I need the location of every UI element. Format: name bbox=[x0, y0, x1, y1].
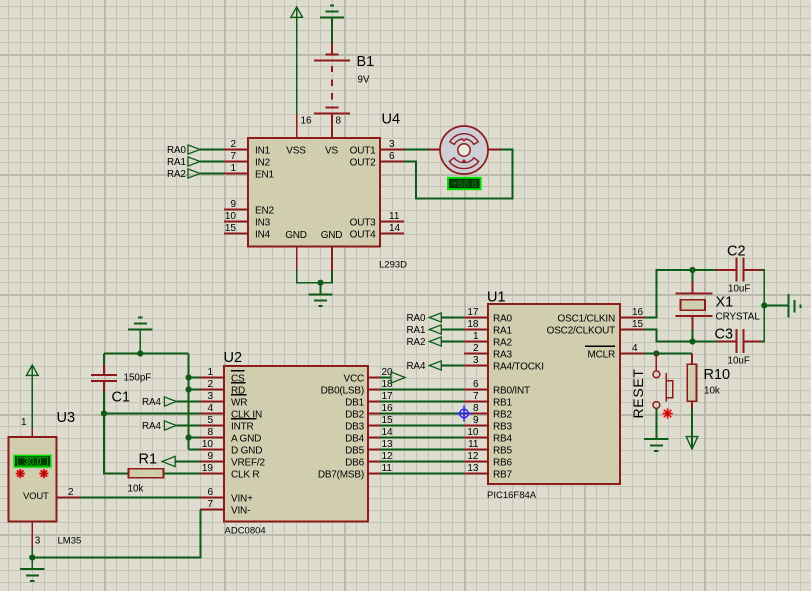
svg-text:15: 15 bbox=[225, 223, 237, 234]
svg-text:150pF: 150pF bbox=[124, 373, 152, 384]
svg-text:17: 17 bbox=[467, 307, 479, 318]
pin 4 stub U2 CLK IN bbox=[200, 413, 224, 415]
svg-text:VOUT: VOUT bbox=[23, 491, 49, 502]
pin 5 stub U2 INTR bbox=[200, 425, 224, 427]
pin 8 stub U1 RB2 bbox=[464, 413, 488, 415]
svg-text:DB1: DB1 bbox=[345, 398, 364, 409]
svg-text:DB2: DB2 bbox=[345, 410, 364, 421]
svg-text:9: 9 bbox=[473, 415, 479, 426]
junction C1/CLK IN bbox=[101, 410, 107, 416]
wire down to C1 bbox=[103, 354, 105, 365]
power terminal above U3 bbox=[27, 365, 39, 375]
pin 4 stub U1 MCLR bbox=[620, 353, 644, 355]
motor (DC motor symbol) bbox=[440, 126, 488, 174]
pin 10 stub U1 RB4 bbox=[464, 437, 488, 439]
wire top node to C2 bbox=[693, 269, 717, 271]
svg-text:2: 2 bbox=[473, 343, 479, 354]
svg-text:10k: 10k bbox=[704, 386, 720, 397]
svg-text:IN4: IN4 bbox=[255, 230, 271, 241]
svg-text:10: 10 bbox=[202, 439, 214, 450]
svg-text:12: 12 bbox=[467, 451, 479, 462]
svg-text:6: 6 bbox=[389, 151, 395, 162]
pin 16 stub U2 DB2 bbox=[368, 413, 380, 415]
blue origin marker on RB2 wire bbox=[456, 406, 472, 422]
svg-text:LM35: LM35 bbox=[58, 536, 82, 547]
svg-text:RB4: RB4 bbox=[493, 434, 512, 445]
svg-text:3: 3 bbox=[389, 139, 395, 150]
svg-text:16: 16 bbox=[632, 307, 644, 318]
pin 10 stub U4 IN3 bbox=[224, 221, 248, 223]
svg-text:OSC2/CLKOUT: OSC2/CLKOUT bbox=[547, 326, 615, 337]
svg-text:2: 2 bbox=[68, 487, 74, 498]
svg-text:RB7: RB7 bbox=[493, 470, 512, 481]
svg-text:1: 1 bbox=[21, 417, 27, 428]
svg-text:IN1: IN1 bbox=[255, 146, 271, 157]
capacitor C1 bbox=[91, 364, 117, 392]
svg-text:R1: R1 bbox=[139, 452, 158, 468]
pin 12 stub U2 DB6 bbox=[368, 461, 380, 463]
svg-text:DB5: DB5 bbox=[345, 446, 364, 457]
svg-text:RA1: RA1 bbox=[406, 325, 425, 336]
U4 GND pin stub left bbox=[296, 247, 298, 271]
junction CS bbox=[186, 374, 192, 380]
svg-text:12: 12 bbox=[382, 451, 394, 462]
svg-text:OUT2: OUT2 bbox=[350, 158, 377, 169]
terminal RA1 arrow bbox=[188, 157, 200, 166]
wire data bus row y=413.5 bbox=[380, 413, 464, 415]
pin 10 stub U2 D GND bbox=[200, 449, 224, 451]
svg-text:WR: WR bbox=[231, 398, 247, 409]
svg-text:RA4: RA4 bbox=[406, 361, 426, 372]
svg-text:C2: C2 bbox=[727, 244, 746, 260]
wire data bus row y=401.5 bbox=[380, 401, 464, 403]
svg-text:7: 7 bbox=[230, 151, 236, 162]
svg-text:RA3: RA3 bbox=[493, 350, 512, 361]
wire to ground bbox=[320, 283, 322, 295]
motor speed display +88.8 bbox=[448, 178, 481, 190]
svg-text:RESET: RESET bbox=[630, 368, 646, 418]
svg-text:EN2: EN2 bbox=[255, 206, 274, 217]
svg-text:7: 7 bbox=[207, 499, 213, 510]
junction MCLR/reset bbox=[653, 350, 659, 356]
svg-text:R10: R10 bbox=[704, 367, 731, 383]
wire RA4 terminal bbox=[176, 401, 200, 403]
junction RD bbox=[186, 386, 192, 392]
wire RA4 terminal bbox=[176, 425, 200, 427]
terminal RA4 arrow at U1 bbox=[429, 361, 441, 370]
wire top node horizontal bbox=[104, 353, 189, 355]
pin 3 stub U3 bbox=[31, 522, 33, 548]
MCLR overline bbox=[585, 345, 615, 347]
pin 2 stub U4 IN1 bbox=[224, 149, 248, 151]
pin 11 stub U2 DB7(MSB) bbox=[368, 473, 380, 475]
ground above battery bbox=[320, 6, 344, 18]
VREF/2 terminal arrow bbox=[162, 456, 175, 466]
wire U3 VOUT to U2 VIN+ bbox=[81, 497, 201, 499]
sensor U3 LM35 body bbox=[9, 437, 57, 522]
svg-text:8: 8 bbox=[336, 116, 342, 127]
wire pin3 to ground node bbox=[31, 548, 33, 558]
svg-text:RA1: RA1 bbox=[493, 326, 512, 337]
svg-text:11: 11 bbox=[468, 439, 479, 450]
wire OSC1 up to crystal top node bbox=[644, 270, 693, 318]
svg-text:10: 10 bbox=[225, 211, 237, 222]
pin 11 stub U4 OUT3 bbox=[380, 221, 404, 223]
svg-text:DB6: DB6 bbox=[345, 458, 364, 469]
pin 7 stub U2 VIN- bbox=[200, 509, 224, 511]
svg-text:RA4: RA4 bbox=[142, 421, 162, 432]
svg-text:RA1: RA1 bbox=[167, 157, 186, 168]
terminal RA0 arrow bbox=[188, 145, 200, 154]
svg-text:2: 2 bbox=[230, 139, 236, 150]
pin 14 stub U2 DB4 bbox=[368, 437, 380, 439]
svg-text:ADC0804: ADC0804 bbox=[225, 526, 266, 537]
wire RA0 to U4 bbox=[200, 149, 224, 151]
wire crystal bottom lead bbox=[692, 329, 694, 342]
junction LM35 ground node bbox=[29, 554, 35, 560]
svg-text:U2: U2 bbox=[224, 350, 243, 366]
ground (rotated) right side bbox=[789, 294, 801, 318]
svg-text:2: 2 bbox=[207, 379, 213, 390]
microcontroller U1 PIC16F84A body bbox=[488, 304, 620, 484]
battery B1 bbox=[314, 43, 350, 138]
wire OUT1 to motor left bbox=[404, 149, 429, 151]
pin 8 stub U2 A GND bbox=[200, 437, 224, 439]
svg-text:OUT1: OUT1 bbox=[350, 146, 377, 157]
svg-text:U4: U4 bbox=[382, 112, 401, 128]
wire RA4 terminal to U1 bbox=[441, 365, 464, 367]
svg-text:VREF/2: VREF/2 bbox=[231, 458, 265, 469]
wire RA2 to U4 bbox=[200, 173, 224, 175]
motor terminal stub left bbox=[429, 149, 440, 151]
pin 18 stub U1 RA1 bbox=[464, 329, 488, 331]
U3 adjust knob left bbox=[16, 469, 25, 478]
pin 1 stub U2 CS bbox=[200, 377, 224, 379]
svg-text:RA4/TOCKI: RA4/TOCKI bbox=[493, 362, 544, 373]
svg-text:VS: VS bbox=[325, 146, 338, 157]
resistor R1 bbox=[129, 469, 164, 478]
svg-text:RA2: RA2 bbox=[167, 169, 186, 180]
wire VCC pin to arrow bbox=[380, 377, 391, 379]
push button RESET bbox=[653, 354, 673, 409]
ground arrow below R10 bbox=[686, 437, 698, 449]
capacitor C2 bbox=[716, 258, 762, 282]
pin 1 stub U4 EN1 bbox=[224, 173, 248, 175]
wire C1 bottom down bbox=[103, 392, 105, 474]
pin 2 stub U3 VOUT bbox=[57, 497, 81, 499]
U4 GND pin stub right bbox=[331, 247, 333, 271]
pin 17 stub U1 RA0 bbox=[464, 317, 488, 319]
pin 3 stub U4 OUT1 bbox=[380, 149, 404, 151]
svg-text:+88.8: +88.8 bbox=[452, 179, 478, 190]
svg-text:10uF: 10uF bbox=[728, 284, 750, 295]
svg-text:1: 1 bbox=[207, 367, 213, 378]
ground below U3 bbox=[20, 569, 44, 581]
svg-text:16: 16 bbox=[301, 116, 313, 127]
svg-text:3: 3 bbox=[207, 391, 213, 402]
terminal RA4 arrow bbox=[164, 421, 176, 430]
pin 16 stub U1 OSC1/CLKIN bbox=[620, 317, 644, 319]
pin 12 stub U1 RB6 bbox=[464, 461, 488, 463]
svg-text:14: 14 bbox=[382, 427, 394, 438]
terminal RA0 arrow at U1 bbox=[429, 313, 441, 322]
svg-text:MCLR: MCLR bbox=[587, 350, 615, 361]
pin 18 stub U2 DB0(LSB) bbox=[368, 389, 380, 391]
wire ground node to U2 VIN- bbox=[32, 510, 200, 558]
svg-text:6: 6 bbox=[473, 379, 479, 390]
svg-text:L293D: L293D bbox=[379, 260, 407, 271]
wire to right ground bbox=[764, 304, 788, 306]
svg-text:VIN-: VIN- bbox=[231, 506, 250, 517]
wire U4 gnd right down bbox=[331, 271, 333, 284]
wire bottom node to C3 bbox=[693, 341, 718, 343]
pin 6 stub U1 RB0/INT bbox=[464, 389, 488, 391]
svg-text:1: 1 bbox=[230, 163, 236, 174]
svg-text:9V: 9V bbox=[358, 75, 370, 86]
wire data bus row y=449.5 bbox=[380, 449, 464, 451]
svg-text:PIC16F84A: PIC16F84A bbox=[487, 490, 537, 501]
wire data bus row y=461.5 bbox=[380, 461, 464, 463]
svg-text:RA0: RA0 bbox=[406, 313, 426, 324]
svg-text:6: 6 bbox=[207, 487, 213, 498]
svg-text:VIN+: VIN+ bbox=[231, 494, 253, 505]
pin 11 stub U1 RB5 bbox=[464, 449, 488, 451]
svg-text:DB7(MSB): DB7(MSB) bbox=[318, 470, 364, 481]
svg-text:11: 11 bbox=[389, 211, 400, 222]
svg-text:13: 13 bbox=[382, 439, 394, 450]
op-amp driver U4 L293D body bbox=[248, 138, 380, 247]
pin 6 stub U4 OUT2 bbox=[380, 161, 404, 163]
svg-text:DB4: DB4 bbox=[345, 434, 364, 445]
svg-text:9: 9 bbox=[207, 451, 213, 462]
wire power arrow down bbox=[31, 365, 33, 428]
pin 19 stub U2 CLK R bbox=[200, 473, 224, 475]
terminal RA2 arrow at U1 bbox=[429, 337, 441, 346]
svg-text:U3: U3 bbox=[57, 410, 76, 426]
svg-text:8: 8 bbox=[473, 403, 479, 414]
ground above C1 bbox=[128, 318, 152, 330]
svg-text:DB0(LSB): DB0(LSB) bbox=[321, 386, 364, 397]
pin 15 stub U2 DB3 bbox=[368, 425, 380, 427]
svg-text:A GND: A GND bbox=[231, 434, 261, 445]
wire ground stem to node bbox=[139, 329, 141, 354]
svg-text:RA4: RA4 bbox=[142, 397, 162, 408]
wire data bus row y=425.5 bbox=[380, 425, 464, 427]
terminal RA4 arrow bbox=[164, 397, 176, 406]
terminal RA2 arrow bbox=[188, 169, 200, 178]
svg-text:GND: GND bbox=[321, 230, 343, 241]
pin 2 stub U2 RD bbox=[200, 389, 224, 391]
svg-text:RA0: RA0 bbox=[167, 145, 187, 156]
svg-text:GND: GND bbox=[285, 230, 307, 241]
wire MCLR to R10 top bbox=[644, 353, 692, 355]
wire OSC2 down to crystal bottom node bbox=[644, 330, 693, 342]
svg-text:4: 4 bbox=[207, 403, 213, 414]
wire to R1 left bbox=[104, 473, 129, 475]
wire RA1 to U4 bbox=[200, 161, 224, 163]
svg-text:18: 18 bbox=[467, 319, 479, 330]
pin 9 stub U4 EN2 bbox=[224, 209, 248, 211]
red actuate star bbox=[662, 408, 672, 418]
wire crystal top lead bbox=[692, 270, 694, 281]
svg-text:RB5: RB5 bbox=[493, 446, 512, 457]
svg-text:10: 10 bbox=[467, 427, 479, 438]
svg-text:OSC1/CLKIN: OSC1/CLKIN bbox=[558, 314, 615, 325]
pin 9 stub U2 VREF/2 bbox=[200, 461, 224, 463]
svg-text:RB0/INT: RB0/INT bbox=[493, 386, 530, 397]
wire branch junction CS bbox=[189, 377, 200, 379]
svg-text:RA2: RA2 bbox=[406, 337, 425, 348]
wire data bus row y=389.5 bbox=[380, 389, 464, 391]
wire VSS arrow to U4 pin16 bbox=[296, 7, 298, 114]
wire branch D GND bbox=[189, 449, 200, 451]
svg-text:8: 8 bbox=[207, 427, 213, 438]
resistor R10 bbox=[687, 354, 696, 402]
svg-text:13: 13 bbox=[467, 463, 479, 474]
pin 20 stub U2 VCC bbox=[368, 377, 380, 379]
svg-text:C3: C3 bbox=[715, 327, 734, 343]
svg-text:IN3: IN3 bbox=[255, 218, 271, 229]
svg-text:4: 4 bbox=[632, 343, 638, 354]
svg-text:VSS: VSS bbox=[286, 146, 306, 157]
svg-text:14: 14 bbox=[389, 223, 401, 234]
pin 13 stub U2 DB5 bbox=[368, 449, 380, 451]
wire OUT2 around to motor right bbox=[404, 150, 513, 199]
R10 bottom stub bbox=[691, 401, 693, 408]
pin 7 stub U1 RB1 bbox=[464, 401, 488, 403]
pin 1 stub U3 bbox=[31, 428, 33, 437]
pin 3 stub U2 WR bbox=[200, 401, 224, 403]
pin 14 stub U4 OUT4 bbox=[380, 233, 404, 235]
pin 15 stub U4 IN4 bbox=[224, 233, 248, 235]
svg-text:B1: B1 bbox=[357, 54, 375, 70]
ADC U2 ADC0804 body bbox=[224, 366, 368, 522]
pin 7 stub U4 IN2 bbox=[224, 161, 248, 163]
pin 3 stub U1 RA4/TOCKI bbox=[464, 365, 488, 367]
wire C2 right down to C3 right bbox=[762, 270, 765, 342]
svg-text:9: 9 bbox=[230, 199, 236, 210]
wire to CLK IN bbox=[104, 413, 200, 415]
svg-text:RB6: RB6 bbox=[493, 458, 512, 469]
svg-text:OUT3: OUT3 bbox=[350, 218, 377, 229]
junction right ground node bbox=[761, 302, 767, 308]
U3 temperature display 30.0 bbox=[14, 456, 51, 468]
svg-text:DB3: DB3 bbox=[345, 422, 364, 433]
svg-text:IN2: IN2 bbox=[255, 158, 271, 169]
svg-text:1: 1 bbox=[473, 331, 479, 342]
pin 13 stub U1 RB7 bbox=[464, 473, 488, 475]
pin 2 stub U1 RA3 bbox=[464, 353, 488, 355]
junction ground / top node bbox=[137, 350, 143, 356]
pin 1 stub U1 RA2 bbox=[464, 341, 488, 343]
wire R1 right to CLK R bbox=[164, 473, 201, 475]
svg-text:RB1: RB1 bbox=[493, 398, 512, 409]
wire U4 gnd left down bbox=[296, 271, 298, 284]
svg-text:RB3: RB3 bbox=[493, 422, 512, 433]
svg-text:U1: U1 bbox=[487, 290, 506, 306]
junction crystal top bbox=[689, 267, 695, 273]
svg-text:RB2: RB2 bbox=[493, 410, 512, 421]
wire data bus row y=437.5 bbox=[380, 437, 464, 439]
wire RA2 terminal to U1 bbox=[441, 341, 464, 343]
pin 6 stub U2 VIN+ bbox=[200, 497, 224, 499]
pin 16 stub U4 VSS bbox=[296, 114, 298, 138]
junction crystal bottom bbox=[689, 338, 695, 344]
wire U4 gnd bus bbox=[296, 282, 333, 284]
svg-text:15: 15 bbox=[382, 415, 394, 426]
wire data bus row y=473.5 bbox=[380, 473, 464, 475]
wire RA0 terminal to U1 bbox=[441, 317, 464, 319]
ground below reset button bbox=[644, 439, 668, 451]
crystal X1 bbox=[676, 281, 713, 329]
capacitor C3 bbox=[717, 329, 762, 353]
svg-text:CRYSTAL: CRYSTAL bbox=[716, 311, 761, 322]
motor terminal stub right bbox=[488, 149, 500, 151]
wire ground to battery B1 bbox=[331, 17, 333, 43]
svg-text:OUT4: OUT4 bbox=[350, 230, 377, 241]
svg-text:VCC: VCC bbox=[343, 374, 364, 385]
ground below U4 bbox=[308, 294, 332, 306]
wire RA1 terminal to U1 bbox=[441, 329, 464, 331]
svg-text:X1: X1 bbox=[716, 295, 734, 311]
wire R10 to ground arrow bbox=[691, 409, 693, 449]
svg-text:17: 17 bbox=[382, 391, 394, 402]
svg-text:19: 19 bbox=[202, 463, 214, 474]
svg-text:3: 3 bbox=[35, 536, 41, 547]
pin 9 stub U1 RB3 bbox=[464, 425, 488, 427]
svg-text:RA2: RA2 bbox=[493, 338, 512, 349]
svg-text:D GND: D GND bbox=[231, 446, 262, 457]
svg-text:C1: C1 bbox=[112, 390, 131, 406]
svg-text:16: 16 bbox=[382, 403, 394, 414]
svg-text:CLK R: CLK R bbox=[231, 470, 259, 481]
junction U4 ground node bbox=[317, 280, 323, 286]
svg-text:10k: 10k bbox=[128, 484, 144, 495]
svg-text:INTR: INTR bbox=[231, 422, 254, 433]
svg-text:30.0: 30.0 bbox=[24, 457, 42, 467]
pin 15 stub U1 OSC2/CLKOUT bbox=[620, 329, 644, 331]
pin 17 stub U2 DB1 bbox=[368, 401, 380, 403]
svg-text:15: 15 bbox=[632, 319, 644, 330]
terminal RA1 arrow at U1 bbox=[429, 325, 441, 334]
wire branch junction A GND bbox=[189, 437, 200, 439]
wire vertical CS/RD/AGND/DGND bus bbox=[188, 354, 190, 450]
wire to ground bbox=[31, 558, 33, 570]
svg-text:11: 11 bbox=[382, 463, 393, 474]
svg-text:10uF: 10uF bbox=[728, 356, 750, 367]
power terminal (VSS supply arrow) bbox=[291, 7, 303, 17]
svg-text:5: 5 bbox=[207, 415, 213, 426]
wire branch junction RD bbox=[189, 389, 200, 391]
wire button to ground bbox=[655, 408, 657, 439]
junction A GND bbox=[186, 434, 192, 440]
svg-text:EN1: EN1 bbox=[255, 170, 274, 181]
U3 adjust knob right bbox=[39, 469, 48, 478]
svg-text:7: 7 bbox=[473, 391, 479, 402]
wire VREF/2 terminal bbox=[175, 461, 200, 463]
svg-text:RA0: RA0 bbox=[493, 314, 512, 325]
svg-text:3: 3 bbox=[473, 355, 479, 366]
